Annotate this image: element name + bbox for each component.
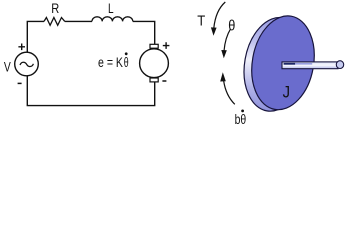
theta arrow curve (224, 29, 231, 51)
shaft end cap (336, 61, 343, 69)
voltage source sine wave (20, 62, 33, 66)
svg-text:T: T (197, 14, 205, 30)
shaft navy stripe (284, 63, 296, 65)
svg-text:bθ: bθ (235, 112, 247, 127)
motor top brush (150, 44, 158, 48)
minus sign at motor (162, 80, 166, 82)
dot over theta (125, 52, 128, 55)
inductor L1 coil (92, 17, 133, 22)
dot over b-theta (241, 110, 244, 113)
svg-text:θ: θ (124, 55, 129, 70)
damping arrow curve (224, 81, 235, 105)
damping arrowhead (up) (220, 72, 226, 81)
svg-text:e = K: e = K (98, 55, 124, 70)
svg-text:R: R (51, 1, 59, 17)
svg-text:L: L (108, 1, 114, 17)
plus sign at source (18, 44, 25, 51)
wire L to motor top (133, 21, 155, 44)
disk front face ellipse (245, 11, 322, 115)
minus sign at source (18, 82, 22, 84)
plus sign at motor (163, 42, 170, 49)
wire top-left segment (27, 21, 44, 52)
theta arrowhead (221, 50, 227, 58)
shaft body (282, 62, 338, 69)
svg-text:J: J (283, 83, 290, 102)
wire between R and L (65, 20, 92, 22)
voltage source V1 circle (15, 52, 39, 76)
svg-text:V: V (4, 59, 11, 75)
motor circle U1 (140, 49, 169, 78)
torque arrow curve (214, 2, 226, 28)
bottom wire loop (27, 76, 154, 106)
resistor R1 zigzag (44, 18, 65, 26)
motor bottom brush (150, 78, 158, 82)
disk back rim ellipse (237, 12, 313, 116)
torque arrowhead (211, 27, 217, 35)
shaft stripe fade (295, 63, 312, 65)
